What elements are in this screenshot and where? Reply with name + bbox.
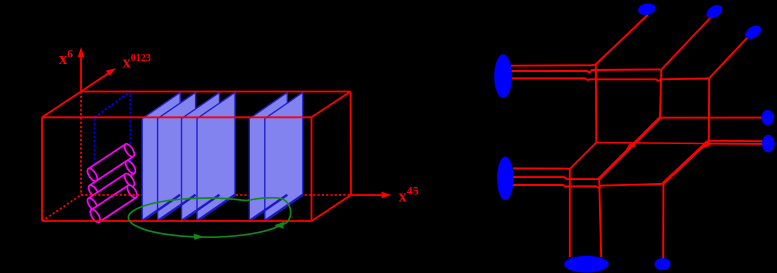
identified diagonal DL2 (J9-J8) [663,141,709,184]
hidden box edges (red dotted) [42,92,351,222]
diagonal J6-J4 [570,143,597,170]
right node R2 [762,135,775,153]
slab 1 [142,92,180,221]
x0123 axis [81,68,116,91]
green direction arrow on loop bottom [194,234,204,240]
horizontal J5 to right node R1 [660,117,762,119]
bottom-left depth edge [42,195,81,221]
vertical 1 (J1-J4) [595,65,598,143]
bottom node B2 [654,258,670,270]
lower D4 line 1 [513,167,570,170]
slab bottom shadow edges [142,195,303,221]
NS5 diagonal 2 to top node [662,17,712,70]
D4' tube 4 [88,183,139,223]
NS5 diagonal 3 to top node [709,35,750,78]
front-left vertical edge [41,117,43,221]
left stack node E2 [497,157,513,201]
bottom node B1 [564,256,609,273]
upper D4 line 1 [511,65,596,66]
period arrowhead on DL2 (points up-right) [701,141,711,149]
slab 4 [197,92,235,221]
slab 3 [182,92,220,221]
NS5 / D4 slabs (blue filled parallelograms) [142,92,303,221]
top node T3 [743,23,764,42]
lower D4 line 3 [513,183,663,187]
NS5' plane (blue dotted parallelogram) [95,92,131,222]
vertical 3 (J3-J9) [708,78,710,140]
back-bottom edge [81,194,351,196]
back-top edge [81,91,351,93]
bottom-right depth edge [312,195,352,221]
back-right vertical edge [350,92,353,196]
top-left depth edge [42,92,81,118]
top node T2 [704,2,725,21]
x45 axis [351,192,392,198]
top node T1 [637,2,657,17]
lower vertical J6 to bottom node [569,169,571,257]
D4' tube 2 [87,159,138,199]
lower vertical J7 to bottom node [599,179,601,257]
double line to right node R2 lower [703,143,762,145]
period horizontal with arrows (J4 to DL2) [596,143,704,144]
D4' tube 1 [86,142,137,182]
top-right depth edge [312,92,351,118]
green arrowhead at loop end [274,222,284,229]
x6 axis [78,47,84,92]
slab 5 [249,92,287,221]
double line J9 to right node R2 upper [709,140,763,142]
upper D4 line 2 [511,69,661,72]
front-top edge [42,116,312,118]
identified diagonal DL1 (J5-J7) [599,118,660,179]
back-left vertical edge [80,92,82,196]
period arrowhead on DL1 (points down-left) [626,142,636,150]
vertical 2 (J2-J5) [660,69,661,117]
lower vertical J8 to bottom node [662,183,664,258]
visible box edges (red solid) [42,92,351,222]
front-right vertical edge [311,117,313,221]
slab 6 [265,92,303,221]
right node R1 [762,110,774,125]
NS5 diagonal 1 to top node [596,15,648,65]
D4' tube 3 [86,172,137,212]
slab 2 [158,92,196,221]
front-bottom edge [42,220,312,222]
left stack node E1 (3 D4-branes) [494,54,512,98]
upper D4 line 3 [511,78,709,81]
compactification circle (green loop) [128,198,290,237]
lower D4 line 2 [513,177,599,179]
